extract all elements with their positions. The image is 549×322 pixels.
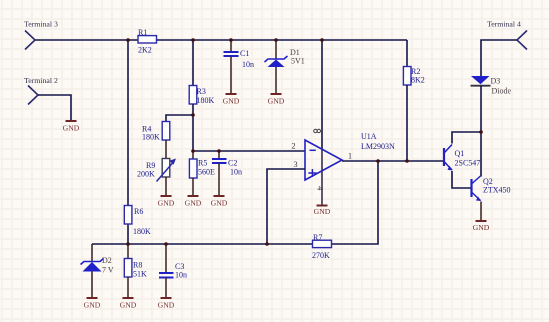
svg-text:GND: GND — [473, 223, 490, 232]
svg-text:Terminal 4: Terminal 4 — [487, 20, 521, 29]
zener diode D1 — [265, 40, 305, 93]
wire R5 to gnd — [192, 178, 194, 195]
resistor R6 — [124, 206, 151, 237]
svg-text:C1: C1 — [240, 49, 249, 58]
svg-text:180K: 180K — [133, 227, 151, 236]
svg-text:D3: D3 — [491, 77, 501, 86]
svg-text:GND: GND — [223, 97, 240, 106]
wire opamp pin8 — [321, 40, 323, 149]
node bus-R1 left — [126, 38, 130, 42]
ground opamp GND — [314, 206, 331, 217]
svg-text:2: 2 — [291, 140, 295, 150]
wire bottom rail — [92, 243, 313, 245]
wire terminal4 down — [481, 40, 517, 76]
svg-text:GND: GND — [268, 97, 285, 106]
op-amp U1A — [291, 129, 395, 191]
capacitor C2 — [212, 151, 242, 195]
ground D1 GND — [268, 94, 285, 106]
zener diode D2 — [81, 244, 114, 297]
svg-text:U1A: U1A — [361, 132, 377, 141]
svg-text:3: 3 — [293, 159, 297, 169]
svg-text:180K: 180K — [142, 133, 160, 142]
wire pin3 net — [267, 169, 305, 244]
svg-text:R5: R5 — [198, 159, 207, 168]
svg-text:D2: D2 — [102, 256, 112, 265]
ground C3 GND — [158, 298, 175, 310]
svg-text:R1: R1 — [138, 28, 147, 37]
diode D3 — [471, 76, 512, 96]
svg-text:R3: R3 — [197, 87, 206, 96]
node bus-C1 — [229, 38, 233, 42]
wire terminal2 to gnd — [38, 95, 71, 120]
wire D3 to collector node — [480, 86, 482, 132]
terminal Terminal 4 — [487, 20, 527, 50]
svg-text:2SC547: 2SC547 — [455, 159, 481, 168]
svg-text:180K: 180K — [197, 96, 215, 105]
resistor R5 — [189, 151, 215, 178]
transistor Q2 — [472, 176, 511, 201]
node R3-R4 — [191, 113, 195, 117]
ground R5 GND — [185, 196, 202, 208]
svg-text:GND: GND — [63, 124, 80, 133]
svg-text:ZTX450: ZTX450 — [483, 186, 511, 195]
svg-text:Terminal 2: Terminal 2 — [24, 76, 58, 85]
svg-text:560E: 560E — [198, 168, 215, 177]
resistor R8 — [124, 244, 147, 279]
svg-text:51K: 51K — [133, 270, 147, 279]
wire R3 bottom through node to R5 junction — [192, 104, 194, 151]
node bus-pin8 — [320, 38, 324, 42]
node collector — [479, 130, 483, 134]
resistor R7 — [312, 233, 332, 260]
ground Q2 GND — [473, 221, 490, 232]
wire R8 to gnd — [127, 277, 129, 297]
svg-text:GND: GND — [120, 301, 137, 310]
wire Q1 emitter to Q2 base — [452, 171, 471, 188]
svg-text:GND: GND — [84, 301, 101, 310]
svg-text:C2: C2 — [228, 159, 237, 168]
wire output net — [342, 160, 443, 162]
wire R6 bottom to rail — [127, 224, 129, 244]
node rail-C3 — [164, 242, 168, 246]
terminal Terminal 3 — [24, 20, 58, 50]
wire collector node down to Q2 — [480, 132, 482, 177]
potentiometer R9 — [137, 159, 176, 182]
svg-text:270K: 270K — [312, 251, 330, 260]
svg-text:R7: R7 — [313, 233, 322, 242]
ground R9 GND — [158, 196, 175, 208]
svg-text:GND: GND — [314, 207, 331, 216]
svg-text:R8: R8 — [133, 261, 142, 270]
node C2-pin2 — [217, 149, 221, 153]
svg-text:2K2: 2K2 — [138, 46, 152, 55]
ground R8 GND — [120, 298, 137, 310]
ground terminal2 GND — [63, 121, 80, 133]
ground C1 GND — [223, 94, 240, 106]
wire opamp pin4 through triangle to gnd — [321, 149, 323, 205]
node rail-pin3 — [265, 242, 269, 246]
wire top bus right of R1 — [157, 39, 408, 41]
node bus-D1 — [274, 38, 278, 42]
wire Q2 emitter to gnd — [480, 202, 482, 221]
svg-text:Terminal 3: Terminal 3 — [24, 20, 58, 29]
svg-text:GND: GND — [158, 199, 175, 208]
wire collector node to Q1 — [452, 132, 481, 144]
wire left vertical x=128 — [127, 40, 129, 206]
wire top bus left of R1 — [35, 39, 138, 41]
svg-text:10n: 10n — [175, 271, 187, 280]
resistor R2 — [403, 67, 424, 86]
svg-text:8K2: 8K2 — [411, 76, 425, 85]
wire R2 bottom to output — [406, 85, 408, 161]
junction node dots — [126, 38, 483, 246]
capacitor C3 — [159, 244, 187, 297]
wire bus to R3 — [192, 40, 194, 86]
svg-text:1: 1 — [348, 151, 352, 161]
node bus-R3 — [191, 38, 195, 42]
svg-text:Diode: Diode — [492, 87, 512, 96]
transistor Q1 — [444, 145, 480, 171]
wire pin2 net — [193, 150, 305, 152]
wire R9 to gnd — [165, 177, 167, 195]
wire node to R4 — [166, 115, 193, 122]
node output-feedback — [376, 159, 380, 163]
svg-text:GND: GND — [211, 199, 228, 208]
svg-text:R6: R6 — [134, 207, 143, 216]
svg-text:GND: GND — [158, 301, 175, 310]
node rail-R6 — [126, 242, 130, 246]
wire R2 top — [406, 40, 408, 67]
resistor R3 — [189, 86, 214, 106]
svg-text:10n: 10n — [242, 60, 254, 69]
node R5-pin2 — [191, 149, 195, 153]
capacitor C1 — [224, 40, 255, 93]
svg-text:LM2903N: LM2903N — [361, 142, 395, 151]
svg-text:10n: 10n — [230, 168, 242, 177]
node output-R2 — [405, 159, 409, 163]
svg-text:200K: 200K — [137, 170, 155, 179]
wire rail right of R7 up to output — [332, 161, 379, 244]
resistor R1 — [138, 28, 157, 55]
ground D2 GND — [84, 298, 101, 310]
svg-text:5V1: 5V1 — [291, 57, 305, 66]
svg-text:7 V: 7 V — [102, 266, 114, 275]
ground C2 GND — [211, 196, 228, 208]
wire R4 to R9 — [165, 140, 167, 159]
terminal Terminal 2 — [24, 76, 58, 105]
svg-text:GND: GND — [185, 199, 202, 208]
svg-text:Q1: Q1 — [455, 149, 465, 158]
resistor R4 — [142, 122, 170, 142]
